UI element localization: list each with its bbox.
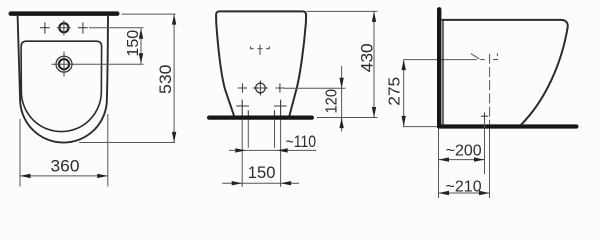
dim ~200 [439, 159, 485, 161]
svg-text:120: 120 [324, 89, 341, 114]
ext lines below right floor [438, 129, 440, 198]
floor line right [437, 124, 579, 128]
center circle cross [256, 83, 266, 93]
dim 360 line [20, 175, 108, 177]
bowl drain circle [56, 56, 72, 72]
drain plus near floor [481, 112, 488, 120]
ext line bolt row to 120 [285, 87, 346, 89]
ext line bottom of body [79, 142, 175, 144]
dim 150 (mid) [222, 182, 299, 184]
right bolt hole [274, 100, 287, 116]
bidet back edge [442, 20, 444, 125]
faucet crosshair [57, 20, 71, 35]
dim 150 line (left view) [140, 28, 142, 64]
360 right ext [107, 114, 109, 187]
dim ~210 [439, 192, 490, 194]
svg-text:430: 430 [357, 43, 376, 72]
left plus [40, 22, 50, 33]
left plus mid [238, 83, 247, 92]
dashed cross top [251, 45, 270, 55]
left bolt hole [236, 100, 249, 116]
svg-text:~200: ~200 [446, 143, 482, 160]
faucet hole circle [59, 23, 68, 32]
svg-text:~210: ~210 [446, 178, 482, 195]
bidet profile [442, 20, 568, 125]
dim 530 line [173, 14, 175, 142]
drain crosshair [52, 52, 77, 77]
ext floor right (to 120 and 430) [317, 117, 378, 119]
svg-text:~110: ~110 [286, 133, 317, 151]
outer body outline [18, 16, 108, 143]
inner bowl [21, 41, 102, 131]
dim 430 [373, 11, 375, 117]
ext line top (bar) [122, 13, 176, 15]
ext top edge to 430 [307, 10, 378, 12]
svg-text:530: 530 [156, 65, 175, 95]
svg-text:150: 150 [248, 164, 276, 182]
ext line drain row [76, 63, 143, 65]
svg-text:360: 360 [51, 157, 80, 176]
svg-text:275: 275 [387, 77, 404, 106]
ext 275 bottom [403, 126, 437, 128]
body outline [216, 11, 306, 116]
ext 275 top [404, 59, 477, 61]
360 left ext [19, 119, 21, 187]
floor line mid [207, 116, 314, 120]
wall line [437, 7, 441, 128]
wall bar [9, 11, 120, 16]
right plus [78, 22, 88, 33]
svg-text:150: 150 [125, 30, 142, 57]
right plus mid [275, 83, 284, 92]
bolt ext lines below floor [242, 120, 280, 188]
ext line faucet row [89, 27, 144, 29]
dim ~110 [229, 149, 316, 151]
dim 120 [341, 66, 343, 132]
dim 275 [403, 60, 405, 127]
inlet dashed cross [471, 54, 480, 59]
